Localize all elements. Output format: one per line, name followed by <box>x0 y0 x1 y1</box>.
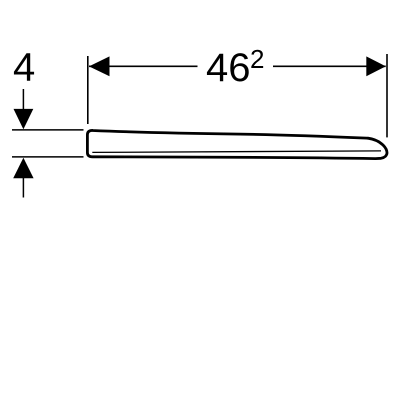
svg-text:4: 4 <box>13 46 35 90</box>
svg-text:46: 46 <box>206 46 251 90</box>
svg-text:2: 2 <box>250 44 264 74</box>
